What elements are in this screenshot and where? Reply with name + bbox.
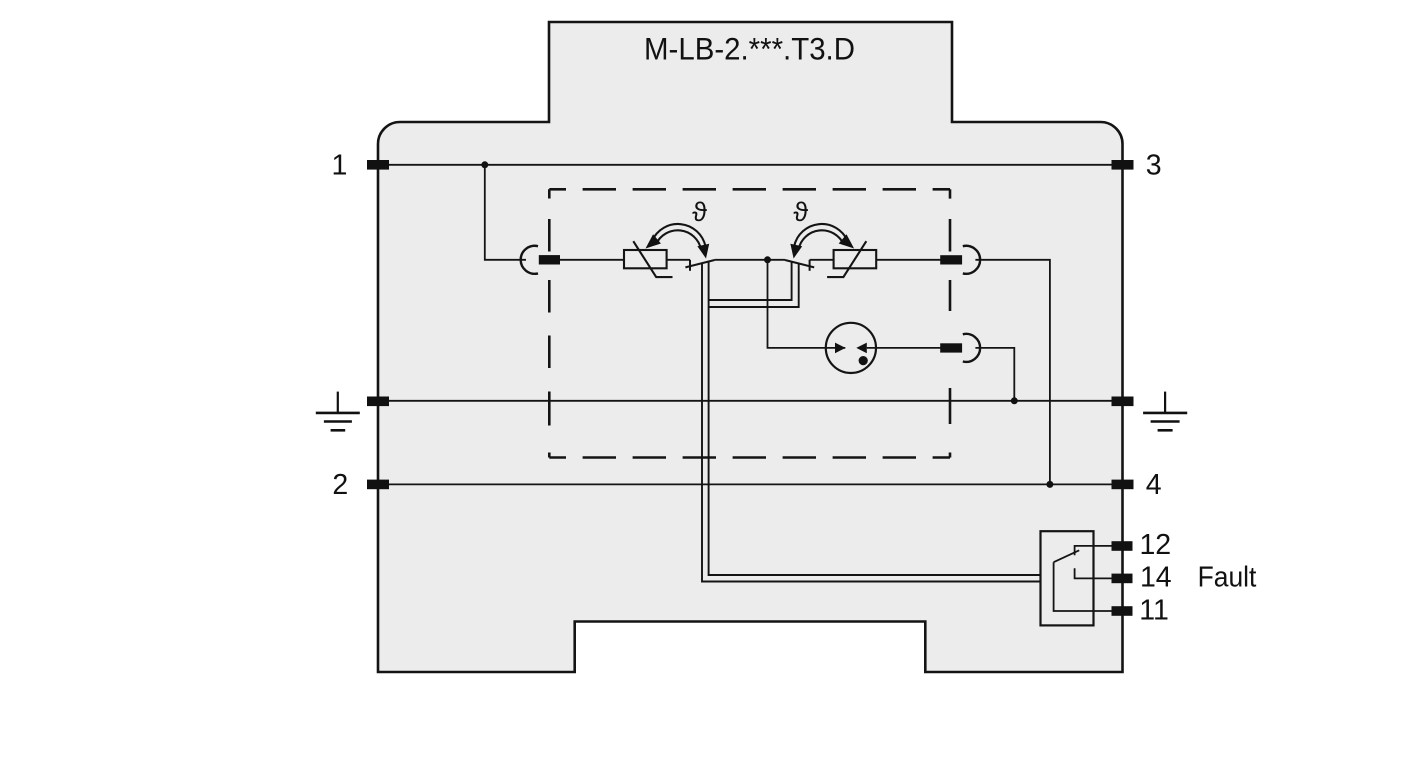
terminal 12 xyxy=(1112,541,1133,551)
svg-text:11: 11 xyxy=(1139,595,1169,627)
plug arc right top xyxy=(963,246,980,274)
thermal disconnect right: contact tick xyxy=(809,260,811,271)
plug terminal right top xyxy=(940,255,962,264)
node on wire 2-4 xyxy=(1046,481,1053,488)
wire xyxy=(810,259,834,261)
module body outline xyxy=(378,22,1123,672)
mechanical linkage outer line xyxy=(702,263,1041,581)
mechanical linkage inner line xyxy=(709,262,1041,575)
ground wire xyxy=(378,400,1123,402)
terminal 14 xyxy=(1112,574,1133,584)
gas discharge tube left electrode xyxy=(835,343,846,354)
mechanical linkage lower cross bar xyxy=(709,264,799,308)
ground terminal right xyxy=(1112,397,1134,407)
plug terminal right mid xyxy=(940,343,962,352)
terminal 1 xyxy=(367,160,389,170)
plug arc left xyxy=(521,246,538,274)
wire between blades xyxy=(715,259,785,261)
svg-text:12: 12 xyxy=(1139,529,1171,561)
svg-text:ϑ: ϑ xyxy=(692,197,707,227)
ground symbol left xyxy=(316,392,360,431)
ground symbol right xyxy=(1143,392,1187,431)
svg-text:3: 3 xyxy=(1146,150,1162,182)
thermal arrow left xyxy=(646,224,710,259)
wire to terminal 4 riser xyxy=(975,260,1050,485)
wire from tube to right plug xyxy=(867,347,941,349)
fault contact 12 wire xyxy=(1075,546,1112,555)
svg-text:Fault: Fault xyxy=(1198,561,1257,593)
thermal arrow right xyxy=(790,224,854,259)
wire 1-3 xyxy=(378,164,1123,166)
terminal 3 xyxy=(1112,160,1134,170)
wire from node A down to input plug xyxy=(485,165,526,260)
node on ground wire xyxy=(1011,397,1018,404)
svg-text:ϑ: ϑ xyxy=(793,197,808,227)
thermal disconnect left: contact tick xyxy=(689,260,691,271)
terminal 4 xyxy=(1112,480,1134,490)
wire xyxy=(667,259,690,261)
dashed protection-stage box xyxy=(549,189,950,457)
wire 2-4 xyxy=(378,483,1123,485)
gas discharge tube circle xyxy=(826,323,876,373)
node A on wire 1 xyxy=(481,161,488,168)
svg-text:M-LB-2.***.T3.D: M-LB-2.***.T3.D xyxy=(644,32,855,67)
wire xyxy=(560,259,624,261)
thermal disconnect right: blade xyxy=(785,260,814,267)
wire from junction down to gas discharge tube xyxy=(768,260,846,348)
gas discharge tube right electrode xyxy=(856,343,867,354)
svg-text:4: 4 xyxy=(1146,469,1162,501)
terminal 2 xyxy=(367,480,389,490)
fault contact blade xyxy=(1054,550,1080,562)
ground terminal left xyxy=(367,397,389,407)
fault contact 14 hook and wire xyxy=(1075,568,1112,578)
gas discharge tube gas dot xyxy=(859,356,868,365)
svg-text:14: 14 xyxy=(1140,561,1172,593)
fault contact riser and 11 wire xyxy=(1054,562,1112,611)
plug terminal left xyxy=(539,255,560,264)
junction node center xyxy=(764,256,771,263)
wire xyxy=(876,259,941,261)
wire from plug down to ground wire xyxy=(975,348,1014,401)
svg-text:1: 1 xyxy=(331,150,347,182)
fault contact box xyxy=(1041,531,1094,625)
mechanical linkage upper cross bar xyxy=(709,262,792,300)
thermal disconnect left: blade xyxy=(685,260,714,267)
terminal 11 xyxy=(1112,606,1133,616)
varistor RU2 xyxy=(827,241,876,277)
plug arc right mid xyxy=(963,334,980,362)
svg-text:2: 2 xyxy=(332,469,348,501)
varistor RU1 xyxy=(624,241,673,277)
